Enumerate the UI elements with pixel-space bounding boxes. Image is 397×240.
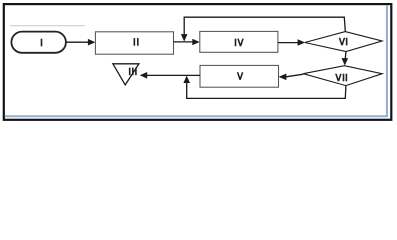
arrowhead into VII top xyxy=(342,58,349,65)
wire I to II xyxy=(66,41,89,43)
label II xyxy=(134,38,139,46)
wire V to III xyxy=(146,74,200,76)
decision VII xyxy=(303,66,382,86)
wire IV to VI xyxy=(278,42,299,44)
label VI xyxy=(339,38,348,46)
label VII xyxy=(335,74,347,82)
label V xyxy=(237,72,244,80)
feedback wire VI top to II-IV junction xyxy=(184,17,345,35)
decision VI xyxy=(305,32,382,52)
outer black frame xyxy=(4,4,392,120)
process IV xyxy=(200,31,278,52)
terminator I xyxy=(11,32,66,53)
label I xyxy=(41,39,43,47)
arrowhead into IV xyxy=(192,39,199,46)
blue gridline right xyxy=(386,5,388,117)
feedback wire VII bottom to V-III junction xyxy=(187,82,346,99)
arrowhead up onto V-III wire xyxy=(183,76,190,83)
label III xyxy=(129,68,137,76)
process II xyxy=(95,32,173,54)
arrowhead down onto II-IV wire xyxy=(181,34,188,41)
arrowhead into VI xyxy=(298,39,305,46)
wire II to IV xyxy=(174,41,194,43)
faint gray line above terminator I xyxy=(10,25,85,27)
blue gridline bottom xyxy=(5,115,388,117)
wire VII to V xyxy=(286,74,303,77)
arrowhead into V right xyxy=(279,74,287,81)
arrowhead into II xyxy=(88,39,95,46)
process V xyxy=(200,65,279,87)
label IV xyxy=(235,39,244,47)
arrowhead into III xyxy=(140,72,147,79)
wire VI to VII xyxy=(344,52,347,61)
sink III triangle xyxy=(113,64,139,85)
